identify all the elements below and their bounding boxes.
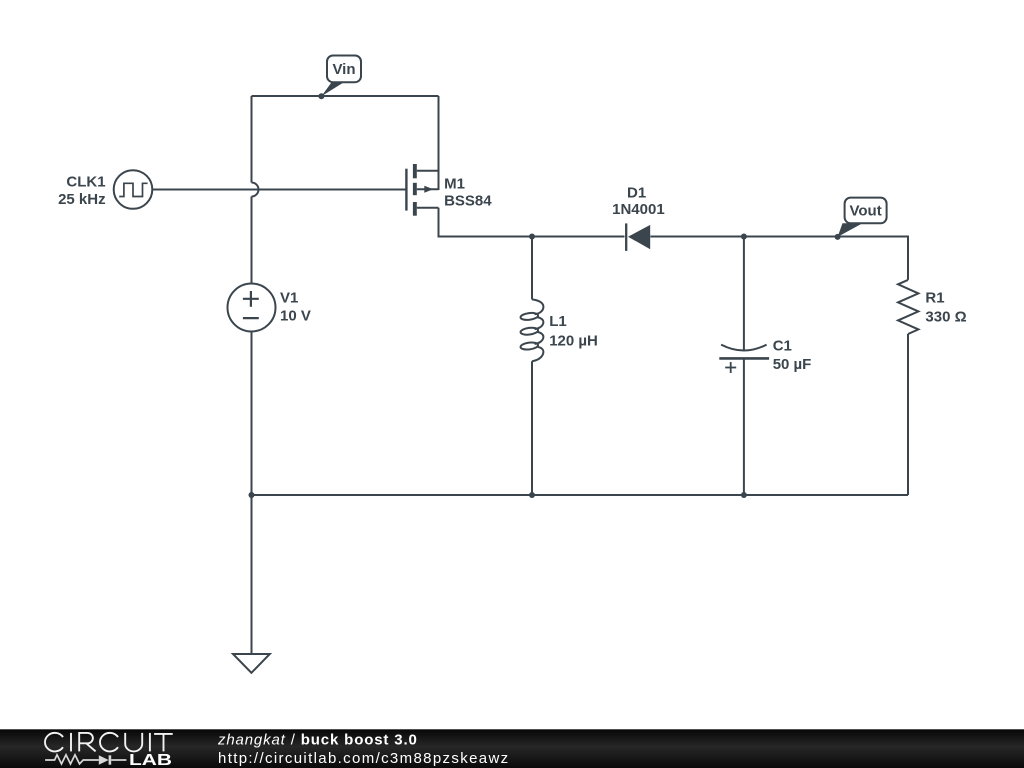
wire C1 top lead [743, 237, 745, 350]
wire left rail to V1 [251, 197, 253, 284]
svg-text:Vout: Vout [849, 202, 881, 219]
svg-text:D1: D1 [627, 185, 646, 202]
ground [233, 654, 270, 673]
logo mini schematic [45, 755, 126, 765]
wire V1 to bottom rail [251, 332, 253, 496]
wire mosfet source down [439, 208, 533, 237]
transistor M1 (PMOS) [406, 164, 438, 216]
junction output node [741, 234, 747, 240]
resistor R1 [898, 280, 918, 334]
junction switch node [529, 234, 535, 240]
wire hop over gate wire [252, 183, 259, 197]
svg-text:CLK1: CLK1 [66, 174, 105, 191]
junction C1 to rail [741, 492, 747, 498]
diode D1 [626, 223, 650, 251]
svg-text:V1: V1 [280, 290, 298, 307]
node Vin balloon [318, 56, 361, 100]
svg-text:BSS84: BSS84 [444, 193, 492, 210]
wire to ground [251, 495, 253, 654]
svg-text:L1: L1 [549, 313, 567, 330]
wire C1 bottom lead [743, 358, 745, 495]
voltage source V1 [228, 284, 276, 332]
wire top rail [252, 95, 439, 97]
wire output node to R1 [744, 237, 908, 280]
svg-text:C1: C1 [773, 337, 792, 354]
clock source CLK1 [114, 170, 153, 209]
svg-text:M1: M1 [444, 176, 465, 193]
svg-text:120 µH: 120 µH [549, 332, 598, 349]
wire R1 bottom lead [907, 334, 909, 495]
svg-text:25 kHz: 25 kHz [58, 191, 106, 208]
junction L1 to rail [529, 492, 535, 498]
svg-text:50 µF: 50 µF [773, 356, 812, 373]
node Vout balloon [835, 198, 887, 240]
wire diode to output node [650, 236, 744, 238]
svg-text:1N4001: 1N4001 [612, 201, 665, 218]
svg-text:zhangkat / buck boost 3.0: zhangkat / buck boost 3.0 [217, 732, 418, 749]
svg-text:10 V: 10 V [280, 308, 311, 325]
svg-text:LAB: LAB [129, 752, 172, 768]
svg-text:http://circuitlab.com/c3m88pzs: http://circuitlab.com/c3m88pzskeawz [218, 750, 510, 767]
wire L1 bottom lead [531, 361, 533, 495]
footer bar [0, 729, 1024, 768]
wire switch node to diode [532, 236, 625, 238]
junction ground rail left [249, 492, 255, 498]
wire gate [152, 189, 406, 191]
wire bottom rail [252, 494, 909, 496]
capacitor C1 [719, 345, 769, 373]
wire left rail upper [251, 96, 253, 183]
wire mosfet drain top [438, 96, 440, 190]
wire L1 top lead [531, 237, 533, 300]
inductor L1 [520, 299, 543, 361]
svg-text:Vin: Vin [332, 61, 355, 78]
svg-text:330 Ω: 330 Ω [925, 309, 966, 326]
logo CIRCUIT lettering [45, 733, 173, 752]
svg-text:R1: R1 [925, 290, 944, 307]
